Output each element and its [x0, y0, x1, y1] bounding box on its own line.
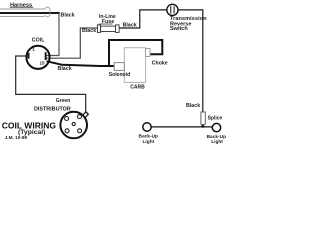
svg-text:Black: Black — [186, 103, 200, 109]
svg-text:Solenoid: Solenoid — [109, 72, 131, 78]
svg-text:Switch: Switch — [170, 26, 188, 32]
svg-text:15: 15 — [40, 60, 46, 65]
svg-text:CARB: CARB — [130, 85, 145, 91]
svg-text:Splice: Splice — [208, 115, 223, 121]
svg-text:Black: Black — [82, 28, 96, 34]
svg-text:Light: Light — [143, 139, 155, 145]
svg-text:Choke: Choke — [152, 60, 168, 66]
svg-text:J.M. 10-89: J.M. 10-89 — [5, 135, 28, 140]
svg-text:Black: Black — [58, 66, 72, 72]
svg-text:DISTRIBUTOR: DISTRIBUTOR — [34, 107, 71, 113]
svg-text:Back-Up: Back-Up — [139, 133, 159, 139]
svg-text:1: 1 — [32, 47, 35, 53]
svg-text:Black: Black — [61, 12, 75, 18]
svg-text:Back-Up: Back-Up — [207, 134, 227, 140]
svg-text:Green: Green — [56, 98, 70, 104]
svg-text:COIL: COIL — [32, 37, 45, 43]
svg-text:Light: Light — [211, 139, 223, 145]
